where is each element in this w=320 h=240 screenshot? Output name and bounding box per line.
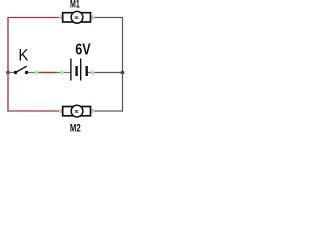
switch K: left terminal dot — [14, 71, 17, 74]
switch K: right terminal dot — [25, 71, 28, 74]
connection marker M1 right — [91, 15, 95, 19]
motor M2: rotor circle — [71, 105, 83, 117]
wire middle dark: battery to right bus — [93, 72, 123, 74]
battery 6V: plate long right — [80, 59, 82, 81]
battery 6V: plate long left — [70, 59, 72, 81]
motor M2: inner glyph — [75, 111, 79, 113]
svg-text:6V: 6V — [75, 41, 91, 59]
wire green lead: battery right — [88, 72, 96, 74]
wire middle red: switch to battery — [39, 72, 57, 74]
wire green lead: junction to switch — [9, 72, 16, 74]
wire right loop (dark): top-right, right side, bottom-right — [92, 18, 123, 112]
wire green lead: switch right — [28, 72, 39, 74]
motor M1: inner glyph — [75, 17, 79, 19]
connection marker M2 right — [91, 109, 95, 113]
motor M2: body box — [63, 107, 91, 116]
wire left loop (red): top-left, left side, bottom-left — [8, 18, 60, 112]
wire green lead: battery left — [57, 72, 71, 74]
battery 6V: plate short left — [75, 66, 77, 76]
switch K: lever (open) — [16, 66, 27, 72]
svg-text:M1: M1 — [70, 0, 80, 10]
svg-text:K: K — [18, 46, 28, 65]
connection marker battery right — [91, 70, 95, 74]
connection marker M2 left — [59, 109, 63, 113]
motor M1: rotor circle — [71, 11, 83, 23]
motor M1: body box — [63, 13, 91, 22]
node junction left (red dot) — [6, 71, 10, 75]
svg-text:M2: M2 — [70, 121, 81, 134]
connection marker M1 left — [59, 15, 63, 19]
connection marker switch right — [35, 70, 39, 74]
connection marker battery left — [60, 70, 64, 74]
node junction right (dark dot) — [121, 71, 125, 75]
battery 6V: plate short right — [85, 66, 87, 76]
